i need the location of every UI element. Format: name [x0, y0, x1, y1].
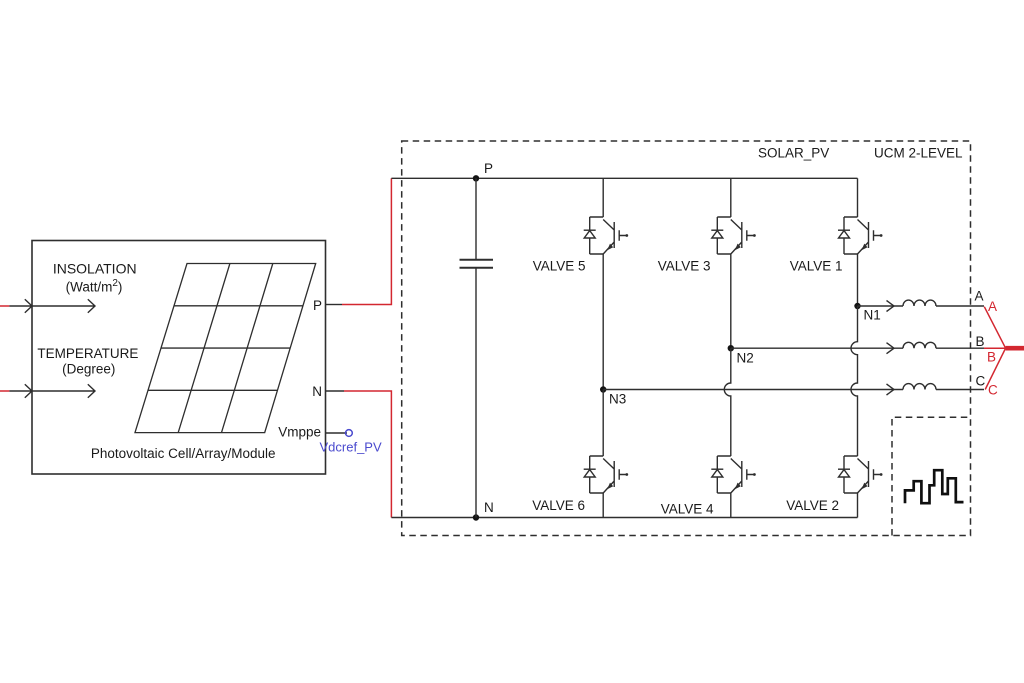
- svg-text:P: P: [484, 161, 493, 176]
- wire red bus bar: [1006, 346, 1024, 351]
- arrow phase C: [887, 384, 895, 395]
- node N3 dot: [600, 386, 606, 392]
- wire valve3 leg top: [730, 178, 732, 217]
- wire red Y phase C branch: [985, 348, 1005, 389]
- svg-text:N3: N3: [609, 392, 626, 407]
- wire N3 to valve6: [602, 390, 604, 457]
- wire red stub insolation input: [0, 305, 9, 307]
- wire top rail P: [391, 177, 857, 179]
- wire phase C to terminal: [936, 389, 984, 391]
- svg-text:N2: N2: [737, 351, 754, 366]
- wire P port stub black: [326, 304, 342, 306]
- block Photovoltaic Cell/Array/Module outline: [32, 241, 326, 475]
- capacitor bottom lead: [475, 268, 477, 518]
- wire valve6 leg bottom: [602, 493, 604, 518]
- svg-text:VALVE 6: VALVE 6: [532, 498, 585, 513]
- transistor VALVE 4: [711, 456, 756, 493]
- wire N1 to valve2 with hops over phases B and C: [851, 306, 858, 456]
- wire valve4 leg bottom: [730, 493, 732, 518]
- svg-text:(Watt/m2): (Watt/m2): [66, 278, 123, 295]
- wire phase A to terminal: [936, 305, 984, 307]
- transistor VALVE 5: [584, 217, 629, 254]
- wire insolation input arrow: [9, 299, 95, 313]
- wire bottom rail N: [391, 517, 857, 519]
- node N2 dot: [728, 345, 734, 351]
- svg-text:TEMPERATURE: TEMPERATURE: [37, 346, 138, 361]
- svg-text:Vdcref_PV: Vdcref_PV: [320, 440, 382, 455]
- wire phase C line: [603, 389, 903, 391]
- wire P DC link red: [342, 178, 391, 304]
- node P dot: [473, 175, 479, 181]
- wire red Y phase B branch: [984, 347, 1006, 349]
- wire valve1 to N1: [857, 254, 859, 306]
- svg-text:VALVE 4: VALVE 4: [661, 502, 714, 517]
- inductor phase B: [903, 342, 936, 348]
- svg-text:VALVE 2: VALVE 2: [786, 498, 839, 513]
- inductor phase C: [903, 384, 936, 390]
- arrow phase A: [887, 301, 895, 312]
- wire N port stub black: [326, 390, 344, 392]
- svg-text:N: N: [484, 500, 494, 515]
- PV panel parallelogram grid: [135, 264, 316, 433]
- node N1 dot: [854, 303, 860, 309]
- wire valve2 leg bottom: [857, 493, 859, 518]
- terminal Vdcref_PV circle: [346, 430, 353, 437]
- svg-text:SOLAR_PV: SOLAR_PV: [758, 146, 829, 161]
- wire temperature input arrow: [9, 384, 95, 398]
- wire N DC link red: [344, 391, 391, 518]
- wire valve3 to N2: [730, 254, 732, 348]
- waveform PWM steps: [905, 470, 964, 503]
- svg-text:A: A: [975, 289, 984, 304]
- transistor VALVE 6: [584, 456, 629, 493]
- arrow phase B: [887, 343, 895, 354]
- svg-text:Vmppe: Vmppe: [278, 425, 321, 440]
- wire valve1 leg top: [857, 178, 859, 217]
- wire Vmppe stub: [326, 432, 347, 434]
- wire phase B to terminal: [936, 347, 984, 349]
- svg-text:VALVE 3: VALVE 3: [658, 259, 711, 274]
- svg-text:UCM 2-LEVEL: UCM 2-LEVEL: [874, 146, 963, 161]
- transistor VALVE 2: [838, 456, 883, 493]
- svg-text:(Degree): (Degree): [62, 361, 115, 376]
- wire phase B line: [731, 347, 903, 349]
- wire red Y phase A branch: [984, 307, 1005, 349]
- svg-text:N: N: [312, 384, 322, 399]
- svg-text:C: C: [988, 383, 998, 398]
- svg-text:P: P: [313, 298, 322, 313]
- svg-text:N1: N1: [864, 308, 881, 323]
- svg-text:Photovoltaic Cell/Array/Module: Photovoltaic Cell/Array/Module: [91, 446, 276, 461]
- wire red stub temperature input: [0, 390, 9, 392]
- svg-text:INSOLATION: INSOLATION: [53, 260, 137, 276]
- capacitor plates: [460, 260, 494, 268]
- transistor VALVE 1: [838, 217, 883, 254]
- wire valve5 to N3: [602, 254, 604, 390]
- svg-text:A: A: [988, 299, 997, 314]
- wire phase A line: [858, 305, 904, 307]
- inductor phase A: [903, 300, 936, 306]
- svg-text:C: C: [976, 374, 986, 389]
- dashed box PWM waveform block: [892, 417, 971, 535]
- capacitor DC link top lead: [475, 178, 477, 259]
- svg-text:B: B: [987, 350, 996, 365]
- transistor VALVE 3: [711, 217, 756, 254]
- svg-text:VALVE 1: VALVE 1: [790, 259, 843, 274]
- svg-text:VALVE 5: VALVE 5: [533, 259, 586, 274]
- wire N2 to valve4 with hop over phase C: [724, 348, 731, 456]
- dashed box SOLAR_PV UCM 2-LEVEL: [402, 141, 971, 536]
- node N dot: [473, 514, 479, 520]
- svg-text:B: B: [976, 334, 985, 349]
- wire valve5 leg top: [602, 178, 604, 217]
